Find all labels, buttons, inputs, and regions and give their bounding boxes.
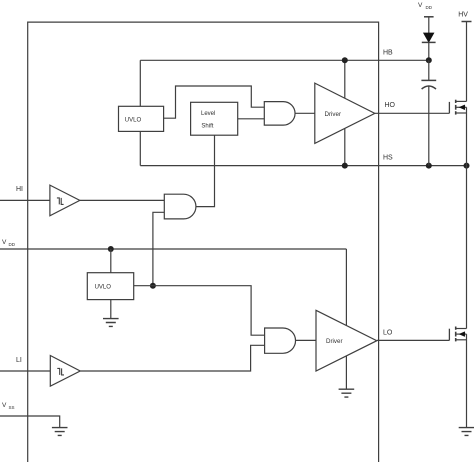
svg-text:DD: DD xyxy=(426,5,433,10)
HV terminal bar xyxy=(462,21,472,23)
AND gate A2 xyxy=(265,328,296,353)
junction VDD-UVLO2 xyxy=(108,246,114,252)
svg-text:SS: SS xyxy=(9,405,15,410)
wire LO output xyxy=(377,339,450,341)
wire driver2 ground leg xyxy=(345,356,347,389)
svg-text:Shift: Shift xyxy=(201,123,213,129)
wire capacitor to HS xyxy=(428,86,430,166)
driver 2 xyxy=(316,310,377,371)
svg-text:LI: LI xyxy=(16,357,22,364)
wire HB node to capacitor xyxy=(428,60,430,80)
wire VDD terminal to diode xyxy=(428,17,430,33)
wire AND2 output xyxy=(296,339,317,341)
wire VDD rail xyxy=(0,248,346,250)
svg-text:UVLO: UVLO xyxy=(95,285,112,291)
bootstrap capacitor C1 xyxy=(421,79,436,81)
wire UVLO1 top leg xyxy=(139,60,141,106)
transistor Q2 low-side MOSFET xyxy=(449,327,466,342)
wire VDD to driver2 xyxy=(345,249,347,326)
wire AND3 output xyxy=(295,112,315,114)
ground driver2 xyxy=(339,389,355,397)
svg-text:LO: LO xyxy=(383,330,393,337)
svg-text:V: V xyxy=(2,402,7,409)
wire level shift output xyxy=(238,118,265,120)
wire VSS input xyxy=(0,416,60,428)
junction HS fet xyxy=(464,163,470,169)
buffer U1 HI Schmitt xyxy=(50,185,80,216)
level shift block xyxy=(191,102,238,135)
svg-text:HV: HV xyxy=(458,12,468,19)
wire HI buffer output xyxy=(80,199,165,201)
junction HB bootstrap node xyxy=(426,57,432,63)
ground power xyxy=(459,428,474,436)
UVLO block 1 xyxy=(119,106,164,131)
IC boundary box xyxy=(28,22,379,462)
ground UVLO2 xyxy=(103,319,119,327)
svg-text:DD: DD xyxy=(9,242,16,247)
bootstrap diode D1 xyxy=(424,33,434,42)
wire UVLO2 output to AND2 xyxy=(134,286,265,336)
transistor Q1 high-side MOSFET xyxy=(449,100,466,115)
svg-text:UVLO: UVLO xyxy=(125,118,142,124)
wire AND1 output to level shift xyxy=(196,135,215,206)
wire HV to Q1 drain xyxy=(466,22,468,102)
svg-text:HS: HS xyxy=(383,155,393,162)
wire HO output xyxy=(375,112,450,114)
buffer U2 LI Schmitt xyxy=(50,356,80,387)
svg-text:V: V xyxy=(2,239,7,246)
junction HS driver xyxy=(342,163,348,169)
wire HS rail xyxy=(140,165,466,167)
ground VSS xyxy=(52,428,68,436)
junction UVLO2 output xyxy=(150,283,156,289)
wire HI input xyxy=(0,199,50,201)
wire UVLO1 output to AND3 xyxy=(164,86,265,118)
wire diode to HB node xyxy=(428,42,430,60)
wire HS node to Q2 drain xyxy=(466,166,468,329)
wire LI input xyxy=(0,370,50,372)
UVLO block 2 xyxy=(87,273,133,300)
wire HB to driver1 xyxy=(344,60,346,98)
svg-text:HI: HI xyxy=(16,186,23,193)
svg-text:Level: Level xyxy=(201,111,215,117)
wire AND1 lower input xyxy=(153,212,164,285)
svg-text:V: V xyxy=(418,2,423,9)
svg-text:Driver: Driver xyxy=(325,111,342,118)
wire Q1 source to HS xyxy=(466,107,468,165)
junction HS bootstrap xyxy=(426,163,432,169)
svg-text:HB: HB xyxy=(383,50,393,57)
driver 1 xyxy=(315,83,375,143)
junction HB driver xyxy=(342,57,348,63)
svg-text:Driver: Driver xyxy=(326,338,343,345)
wire UVLO2 top leg xyxy=(110,249,112,273)
VDD terminal bar xyxy=(424,16,434,18)
AND gate A1 xyxy=(164,194,196,219)
wire UVLO1 bottom leg xyxy=(139,131,141,165)
wire LI to AND2 lower input xyxy=(80,345,264,371)
AND gate A3 xyxy=(264,102,295,126)
wire driver1 to HS xyxy=(344,128,346,165)
wire HB rail xyxy=(140,59,429,61)
wire UVLO2 ground leg xyxy=(110,300,112,319)
svg-text:HO: HO xyxy=(385,102,396,109)
wire Q2 source to ground xyxy=(466,334,468,428)
